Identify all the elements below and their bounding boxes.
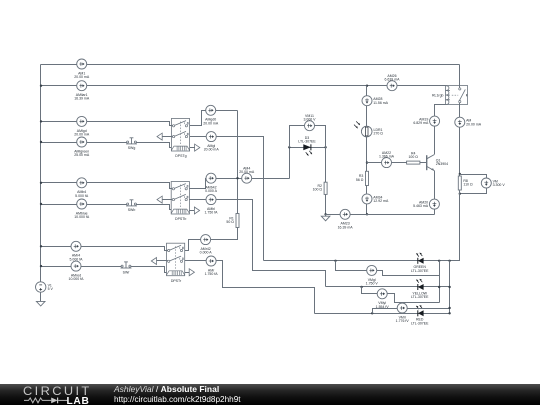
wire DPSTg coil out	[190, 147, 195, 149]
port arrow DPSTr coil port	[189, 269, 194, 276]
resistor R2	[313, 182, 328, 194]
wire R1 bottom to AMr42 row	[185, 228, 238, 251]
wire bus 0-outputs vertical	[237, 111, 239, 214]
ammeter AMliar1	[74, 81, 90, 101]
ammeter AMred	[69, 261, 85, 281]
node D3 cathode node	[324, 146, 326, 148]
wire DPSTb pole2 out yellow feed	[190, 200, 326, 287]
svg-text:20.00 mA: 20.00 mA	[204, 148, 220, 152]
node rail-r5	[40, 182, 42, 184]
wire V1 to ground	[40, 293, 42, 302]
wire row AMlgreen to SWg	[41, 142, 127, 144]
wire SWr to DPSTr coil	[131, 267, 167, 273]
wire top row net A (to relay switch)	[41, 64, 460, 66]
wire DPSTr pole2 out red feed	[185, 261, 315, 314]
node VMrl return	[448, 307, 450, 309]
node bus-AM4row	[236, 177, 238, 179]
svg-text:110 Ω: 110 Ω	[463, 182, 473, 186]
resistor R1	[226, 214, 239, 228]
svg-text:LAB: LAB	[67, 396, 90, 405]
wire collector up	[434, 127, 436, 155]
footer bar	[0, 384, 540, 405]
svg-text:LTL-307EE: LTL-307EE	[298, 140, 316, 144]
wire top row to relay switch	[459, 65, 461, 88]
ground GND2	[321, 216, 330, 221]
node VM top tap	[459, 173, 461, 175]
svg-text:5 V: 5 V	[48, 287, 54, 291]
wire D3 to R2	[325, 148, 327, 183]
footer url	[114, 395, 241, 404]
wire AM28 to LDR1	[366, 106, 368, 127]
svg-text:6.639 mA: 6.639 mA	[385, 78, 401, 82]
svg-text:2N3904: 2N3904	[436, 162, 448, 166]
svg-text:0.000 A: 0.000 A	[205, 189, 218, 193]
wire row AMb4 to DPSTb pole 1	[41, 183, 173, 189]
ammeter AM	[455, 117, 482, 127]
svg-text:SWr: SWr	[123, 270, 131, 274]
ammeter AMr	[205, 256, 219, 276]
wire DPSTb pole1 out to AMb42 row	[190, 179, 290, 189]
node yellow right end	[448, 286, 450, 288]
ammeter AM1	[74, 59, 90, 79]
wire SWb to DPSTb coil	[137, 205, 172, 210]
ammeter AMr42	[200, 235, 213, 255]
ammeter AMb42	[205, 173, 218, 193]
relay switch DPSTr	[167, 243, 185, 283]
transistor Q1	[427, 155, 448, 171]
relay RL1rgb	[432, 86, 467, 105]
ammeter AMr4	[69, 241, 83, 261]
svg-text:RL1rgb: RL1rgb	[432, 93, 444, 97]
wire SWg to DPSTg coil	[137, 143, 172, 148]
svg-text:DPSTr: DPSTr	[171, 279, 182, 283]
wire left supply rail V1 to top row	[40, 65, 42, 282]
wire LDR branch vertical	[366, 86, 368, 96]
relay switch DPSTb	[171, 182, 189, 222]
wire emitter down	[434, 171, 436, 200]
ammeter AM23	[338, 209, 354, 229]
wire row 2 net (to LDR branch and relay coil)	[41, 85, 446, 87]
svg-text:10.000 fA: 10.000 fA	[69, 277, 85, 281]
svg-text:1.750 fA: 1.750 fA	[204, 211, 218, 215]
node green-red link top	[448, 260, 450, 262]
svg-text:20.00 mA: 20.00 mA	[239, 170, 255, 174]
ammeter AM20	[413, 199, 439, 209]
resistor R8	[458, 176, 473, 190]
svg-text:LTL-307EE: LTL-307EE	[411, 269, 429, 273]
ground GND1	[36, 301, 45, 306]
ammeter VM	[481, 178, 505, 188]
wire relay switch to AM	[459, 103, 461, 118]
ammeter AMbl	[204, 195, 218, 215]
svg-text:12.92 mA: 12.92 mA	[373, 199, 389, 203]
node yellow-VMyl tap	[360, 286, 362, 288]
wire AM20 to ground row	[434, 210, 436, 215]
wire R3 to AM34	[366, 186, 368, 194]
ammeter AM4	[239, 167, 255, 184]
svg-text:3.300 V: 3.300 V	[493, 183, 506, 187]
wire R8 down to green row	[450, 191, 460, 261]
CircuitLab logo	[0, 384, 120, 405]
svg-text:20.00 mA: 20.00 mA	[74, 132, 90, 136]
wire R4 to base	[420, 162, 427, 164]
pushbutton switch SWr	[121, 262, 132, 274]
footer title	[114, 385, 219, 393]
wire ground stub	[325, 215, 327, 217]
svg-text:100 Ω: 100 Ω	[408, 155, 418, 159]
node red-VMrl tap	[371, 312, 373, 314]
node green-VMgl tap	[334, 260, 336, 262]
wire LDR1 to R3	[366, 137, 368, 172]
ammeter AMgd0	[203, 105, 219, 125]
wire VM top loop	[460, 175, 487, 179]
wire DPSTb port to pole 2	[163, 199, 173, 201]
node ground node	[324, 213, 326, 215]
svg-text:1.750 fA: 1.750 fA	[205, 272, 219, 276]
node VM bottom tap	[459, 193, 461, 195]
node rail-r6	[40, 203, 42, 205]
ammeter AMblue	[74, 199, 90, 219]
wire yellow LED row	[326, 286, 450, 288]
svg-text:5.463 mA: 5.463 mA	[413, 204, 429, 208]
ammeter AMb4	[75, 178, 89, 198]
svg-text:DPSTb: DPSTb	[175, 217, 186, 221]
svg-text:270 Ω: 270 Ω	[374, 131, 384, 135]
svg-text:50 Ω: 50 Ω	[226, 220, 234, 224]
LED YELLOW	[411, 279, 429, 299]
ammeter AMlgd	[74, 116, 90, 136]
node rail-r8	[40, 265, 42, 267]
wire DPSTr coil out	[185, 272, 190, 274]
wire emitter ground row	[326, 214, 435, 216]
svg-text:1.776 fV: 1.776 fV	[396, 319, 410, 323]
svg-text:56 Ω: 56 Ω	[356, 178, 364, 182]
wire base row	[367, 162, 407, 164]
ammeter AM19	[413, 116, 439, 126]
ammeter AM34	[362, 194, 389, 204]
wire AM19 to relay coil	[435, 105, 446, 117]
node rail-r3	[40, 120, 42, 122]
node emitter row tap	[366, 213, 368, 215]
node rail-r7	[40, 245, 42, 247]
svg-text:0.000 A: 0.000 A	[200, 251, 213, 255]
resistor R4	[407, 151, 420, 164]
wire AM4 row up to D3 anode	[289, 148, 291, 179]
ammeter VMgl	[366, 265, 379, 285]
ammeter VM11	[303, 114, 316, 131]
svg-text:1.366 mA: 1.366 mA	[379, 155, 395, 159]
wire VM bottom loop	[460, 189, 487, 194]
node green-yellow link top	[438, 260, 440, 262]
node rail-r2	[40, 85, 42, 87]
node red right end	[448, 312, 450, 314]
ammeter AMlgreen	[74, 137, 90, 157]
svg-text:LTL-307EE: LTL-307EE	[411, 321, 429, 325]
wire row AMlgd to DPSTg pole 1	[41, 122, 173, 126]
svg-text:20.00 mA: 20.00 mA	[466, 122, 482, 126]
wire VMgl loop	[336, 261, 440, 276]
wire VM11 loop	[290, 126, 326, 148]
svg-text:SWb: SWb	[128, 208, 136, 212]
port arrow DPSTg coil port	[195, 144, 200, 151]
wire DPSTr port to pole 2	[157, 260, 168, 262]
node D3 anode	[288, 146, 290, 148]
LED GREEN	[411, 253, 429, 273]
relay switch DPSTg	[171, 119, 189, 159]
wire row AMblue to SWb	[41, 204, 127, 206]
ammeter AM28	[362, 96, 389, 106]
node rail-r4	[40, 141, 42, 143]
svg-text:10.000 fA: 10.000 fA	[74, 215, 90, 219]
LDR LDR1	[354, 121, 383, 136]
wire link green to red	[449, 261, 451, 314]
ammeter AMgl	[204, 132, 220, 152]
port arrow DPSTb pole2 in	[157, 196, 162, 203]
wire DPSTb coil out	[190, 210, 195, 212]
svg-text:20.00 mA: 20.00 mA	[74, 75, 90, 79]
pushbutton switch SWb	[126, 200, 137, 212]
pushbutton switch SWg	[126, 138, 137, 150]
ammeter VMrl	[396, 303, 410, 323]
node yellow link mid	[438, 286, 440, 288]
ammeter AM26	[385, 74, 401, 91]
port arrow DPSTr pole2 in	[151, 258, 156, 265]
svg-text:6.829 mA: 6.829 mA	[413, 121, 429, 125]
resistor R3	[356, 171, 369, 185]
LED RED	[411, 305, 429, 325]
svg-text:25.00 mA: 25.00 mA	[74, 153, 90, 157]
port arrow DPSTg pole2 in	[157, 133, 162, 140]
wire VMrl loop	[373, 309, 450, 314]
svg-text:11.56 mA: 11.56 mA	[373, 101, 388, 105]
wire AM34 to ground row	[366, 204, 368, 215]
svg-text:LTL-307EE: LTL-307EE	[411, 295, 429, 299]
wire DPSTg pole2 out green feed	[190, 137, 264, 261]
port arrow DPSTb coil port	[194, 207, 199, 214]
wire green LED row	[264, 260, 450, 262]
node LDR branch tap	[366, 85, 368, 87]
node base branch tap	[366, 161, 368, 163]
ammeter VMyl	[376, 289, 390, 309]
wire DPSTg port to pole 2	[163, 136, 173, 138]
wire AM to R8	[459, 128, 461, 177]
wire R2 to ground row	[325, 195, 327, 215]
svg-text:20.00 mA: 20.00 mA	[203, 121, 219, 125]
svg-text:16.39 mA: 16.39 mA	[74, 97, 90, 101]
wire DPSTg pole1 out to AMgd0 row	[190, 111, 238, 126]
svg-text:100 Ω: 100 Ω	[313, 188, 323, 192]
wire link green to yellow	[439, 261, 441, 303]
svg-text:DPSTg: DPSTg	[175, 154, 186, 158]
wire VMyl loop	[362, 287, 440, 303]
LED D3	[298, 136, 316, 156]
wire row AMred to SWr	[41, 266, 122, 268]
svg-text:5.000 fA: 5.000 fA	[75, 194, 89, 198]
wire red LED row	[315, 313, 450, 315]
wire D3 row	[290, 147, 326, 149]
svg-text:16.39 mA: 16.39 mA	[338, 225, 354, 229]
svg-text:SWg: SWg	[128, 146, 136, 150]
ammeter AM22	[379, 151, 395, 168]
svg-text:1.750 V: 1.750 V	[366, 281, 379, 285]
wire row AMr4 to DPSTr pole 1	[41, 247, 168, 251]
voltage source V1	[36, 282, 54, 292]
svg-text:3.000 V: 3.000 V	[303, 118, 316, 122]
